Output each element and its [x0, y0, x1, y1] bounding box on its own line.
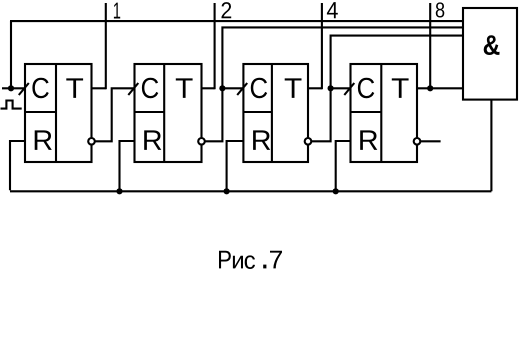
wire DD4 T output to AND gate: [417, 87, 463, 89]
node DD2 output junction: [219, 85, 225, 91]
wire DD3 inverted output up to AND rail C: [311, 36, 463, 142]
wire AND input rail A from clock node: [10, 20, 463, 22]
wire DD4 inverted output stub: [420, 140, 440, 142]
clock pulse symbol: [1, 101, 22, 109]
AND gate symbol &: [484, 35, 500, 55]
node DD3 output junction: [328, 85, 334, 91]
FF2 label C: [142, 78, 158, 99]
inverted output circle DD1: [88, 138, 95, 145]
label output weight 8: [436, 2, 444, 17]
node DD3 R on reset line: [224, 188, 230, 194]
node DD2 R on reset line: [116, 188, 122, 194]
wire clock node up to AND rail: [10, 21, 12, 88]
inverted output circle DD2: [198, 138, 205, 145]
FF1 label R: [35, 130, 52, 150]
wire DD4 R input: [336, 141, 351, 190]
FF4 label T: [392, 78, 409, 98]
flip-flop DD1 box: [25, 64, 92, 162]
inverted output circle DD4: [414, 138, 421, 145]
FF2 label R: [144, 130, 161, 150]
dynamic input slash DD4: [344, 83, 354, 95]
dynamic input slash DD2: [128, 83, 138, 95]
dynamic input slash DD1: [19, 83, 29, 95]
wire rail 2 vertical: [214, 3, 216, 89]
inverted output circle DD3: [305, 138, 312, 145]
wire DD2 inverted output up to AND rail B: [205, 27, 463, 141]
flip-flop DD4 box: [351, 64, 418, 162]
wire DD1 T output: [92, 87, 106, 89]
node rail 8 junction: [427, 85, 433, 91]
flip-flop DD2 box: [135, 64, 202, 162]
wire DD2 node to DD3 C input: [222, 87, 243, 89]
wire AND output down: [490, 100, 492, 192]
caption Ris.7: [219, 251, 282, 269]
wire DD2 R input: [120, 141, 135, 190]
label output weight 4: [327, 2, 338, 18]
node DD4 R on reset line: [333, 188, 339, 194]
FF3 label R: [253, 130, 270, 150]
FF2 label T: [176, 78, 193, 98]
label output weight 1: [114, 3, 120, 19]
label output weight 2: [222, 2, 232, 18]
dynamic input slash DD3: [237, 83, 247, 95]
wire reset feedback line: [10, 190, 491, 192]
FF3 label C: [251, 78, 267, 99]
FF1 label C: [32, 78, 48, 99]
FF1 label T: [66, 78, 83, 98]
wire DD3 T output: [308, 87, 322, 89]
FF4 label R: [360, 130, 377, 150]
wire clock input horizontal: [2, 87, 25, 89]
AND gate DD5 box: [463, 8, 517, 100]
flip-flop DD3 box: [243, 64, 308, 162]
FF4 label C: [358, 78, 374, 99]
wire DD2 T output: [202, 87, 215, 89]
wire rail 1 vertical: [105, 3, 107, 89]
wire rail 4 vertical: [321, 3, 323, 89]
node clock junction: [8, 85, 14, 91]
wire DD3 R input: [227, 141, 244, 190]
wire rail 8 vertical: [429, 3, 431, 88]
wire DD1 R input: [10, 141, 25, 190]
FF3 label T: [285, 78, 302, 98]
wire DD1 inverted output to DD2 C input: [95, 88, 135, 141]
wire DD3 node to DD4 C input: [331, 87, 351, 89]
